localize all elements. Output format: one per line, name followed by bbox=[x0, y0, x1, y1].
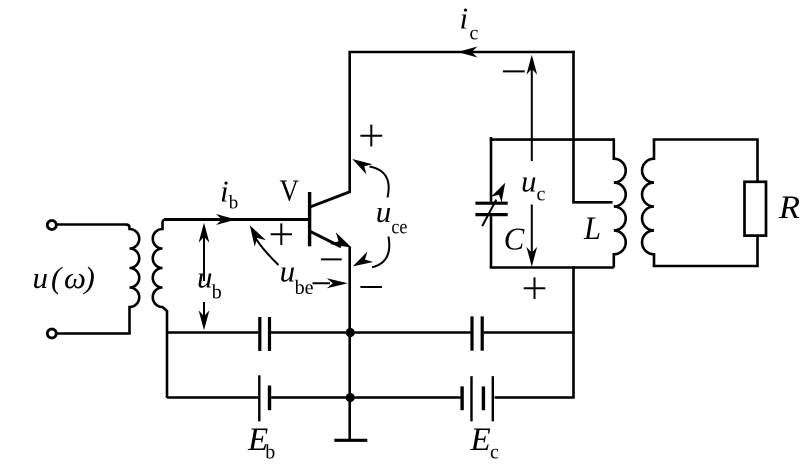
wire bypass row left bbox=[167, 331, 258, 334]
plus sign at base bbox=[271, 223, 292, 245]
minus sign u_ce at emitter bbox=[360, 286, 382, 288]
wire collector vertical bbox=[348, 52, 351, 193]
svg-text:u: u bbox=[376, 194, 392, 229]
wire tank left edge upper bbox=[490, 138, 493, 201]
transistor collector lead bbox=[311, 192, 351, 207]
arrow u_ce to collector bbox=[370, 167, 389, 198]
current arrow i_c bbox=[458, 47, 478, 58]
wire tank left edge lower bbox=[490, 216, 493, 267]
svg-text:i: i bbox=[220, 173, 229, 208]
wire tap to inductor L bbox=[572, 201, 612, 204]
wire top (collector to tank) bbox=[348, 51, 574, 54]
plus sign at collector bbox=[360, 125, 382, 147]
arrow u_ce to emitter bbox=[372, 237, 389, 268]
arrow u_be to emitter bbox=[313, 282, 331, 284]
input terminal bottom bbox=[47, 329, 56, 338]
svg-text:c: c bbox=[490, 442, 499, 464]
plus sign u_c bbox=[524, 277, 546, 299]
transistor V base bar bbox=[308, 192, 311, 246]
svg-text:u: u bbox=[280, 254, 296, 289]
resistor R bbox=[745, 182, 767, 236]
junction dot emitter/battery bbox=[346, 393, 355, 402]
minus sign u_c bbox=[503, 70, 525, 72]
current arrow i_b bbox=[216, 214, 236, 225]
svg-text:u: u bbox=[521, 164, 537, 199]
wire top input lead bbox=[57, 223, 128, 226]
svg-text:R: R bbox=[778, 190, 800, 226]
wire emitter vertical to ground bbox=[348, 247, 351, 440]
wire bypass row right bbox=[484, 331, 575, 334]
voltage arrow u_c bbox=[531, 58, 533, 263]
svg-text:b: b bbox=[212, 282, 222, 304]
transistor emitter lead bbox=[311, 232, 342, 247]
svg-text:b: b bbox=[229, 193, 239, 214]
wire battery row right + right vertical lower bbox=[495, 266, 574, 397]
inductor L coil bbox=[614, 138, 626, 267]
wire tank top edge bbox=[491, 137, 614, 140]
wire bypass row middle bbox=[271, 331, 470, 334]
battery Ec plates bbox=[460, 386, 463, 410]
transformer T1 primary coil bbox=[126, 225, 139, 334]
svg-text:be: be bbox=[295, 277, 314, 299]
capacitor C2 plates bbox=[472, 316, 482, 350]
wire battery row left bbox=[167, 396, 258, 399]
wire output loop bbox=[653, 140, 759, 267]
svg-text:V: V bbox=[280, 173, 300, 208]
transformer T1 secondary coil bbox=[153, 220, 167, 399]
variable capacitor C plates bbox=[475, 203, 507, 214]
svg-text:E: E bbox=[470, 422, 491, 458]
wire tank bottom edge bbox=[491, 266, 614, 267]
wire battery row middle bbox=[271, 396, 460, 399]
svg-text:u(ω): u(ω) bbox=[33, 260, 95, 295]
arrow u_be to base bbox=[254, 236, 279, 266]
svg-text:C: C bbox=[504, 221, 525, 257]
svg-text:i: i bbox=[460, 1, 469, 36]
wire right vertical upper bbox=[572, 51, 575, 203]
svg-text:L: L bbox=[583, 211, 601, 247]
ground bbox=[334, 439, 367, 442]
wire bottom input lead bbox=[57, 332, 131, 335]
svg-text:ce: ce bbox=[391, 215, 407, 239]
svg-text:u: u bbox=[197, 260, 213, 295]
voltage arrow u_b bbox=[203, 226, 205, 327]
svg-text:c: c bbox=[537, 183, 546, 205]
variable capacitor arrow bbox=[482, 200, 496, 227]
svg-text:c: c bbox=[470, 22, 479, 44]
minus sign u_be at emitter bbox=[321, 258, 342, 260]
input terminal top bbox=[47, 221, 56, 230]
wire base lead bbox=[164, 218, 309, 221]
capacitor C1 plates bbox=[260, 317, 270, 351]
output transformer secondary coil bbox=[642, 140, 654, 267]
junction dot emitter/bypass bbox=[346, 328, 355, 337]
emitter arrowhead bbox=[330, 232, 352, 247]
svg-text:b: b bbox=[265, 442, 275, 464]
battery Eb plates bbox=[258, 375, 260, 421]
